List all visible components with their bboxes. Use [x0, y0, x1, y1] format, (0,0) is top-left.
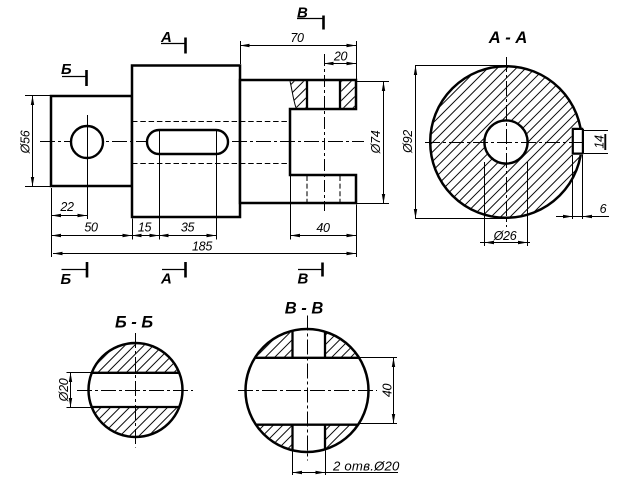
svg-text:Б - Б: Б - Б: [115, 314, 153, 332]
svg-text:А - А: А - А: [488, 29, 528, 47]
middle block outline: [132, 66, 240, 218]
hatched circle bottom segment: [85, 407, 186, 440]
V-V vertical centerline: [307, 316, 309, 461]
leader 2 holes D20: [292, 451, 294, 476]
left block outline: [51, 96, 132, 186]
section mark V bottom: [298, 269, 322, 271]
slot top chord: [92, 372, 180, 374]
broken-out section left hatch patch: [290, 81, 306, 108]
svg-text:Ø92: Ø92: [401, 130, 415, 154]
dimension 70: [240, 41, 242, 64]
hole wall bottom-left: [291, 425, 293, 450]
svg-text:35: 35: [181, 221, 195, 235]
hidden line hole bottom: [132, 163, 289, 165]
circle outline: [89, 343, 183, 437]
svg-text:А: А: [160, 271, 172, 288]
break line (wavy): [290, 81, 296, 108]
dimension 185: [51, 219, 53, 257]
svg-text:6: 6: [600, 202, 607, 216]
hole wall bottom-right: [324, 425, 326, 449]
dimension 15: [159, 131, 161, 240]
circle outline: [246, 329, 369, 452]
keyway outline: [572, 129, 584, 154]
dimension 14: [584, 130, 609, 132]
svg-text:В: В: [298, 271, 309, 288]
A-A horizontal centerline: [425, 142, 586, 144]
B-B vertical centerline: [135, 333, 137, 448]
dimension 22: [51, 188, 53, 219]
section mark V top: [297, 18, 323, 20]
svg-text:14: 14: [593, 135, 607, 149]
A-A vertical centerline: [506, 57, 508, 227]
hidden line hole top: [132, 121, 289, 123]
hatched top-left segment: [242, 326, 293, 358]
vertical centerline of left hole: [87, 115, 89, 219]
svg-text:185: 185: [192, 240, 212, 254]
svg-text:70: 70: [290, 31, 304, 45]
svg-text:22: 22: [59, 200, 74, 214]
hatched circle top segment: [85, 340, 186, 373]
dimension 35: [216, 131, 218, 240]
svg-text:В - В: В - В: [285, 300, 324, 318]
notch top chord: [255, 357, 360, 359]
B-B horizontal centerline: [77, 390, 193, 392]
dimension 50: [132, 219, 134, 240]
dimension D26: [484, 162, 486, 246]
slot (keyway) in middle block: [147, 130, 228, 154]
vertical centerline of fork holes: [324, 54, 326, 211]
hatched top-right segment: [325, 326, 375, 358]
dimension D56: [25, 95, 51, 97]
dimension 40 bottom: [290, 176, 292, 240]
section mark A top: [161, 43, 185, 45]
broken-out section right hatch patch: [341, 81, 355, 108]
hole left wall: [306, 80, 308, 109]
svg-text:20: 20: [333, 50, 348, 64]
right block (fork) outline: [240, 80, 356, 203]
hatched bottom-left segment: [242, 425, 293, 456]
V-V horizontal centerline: [238, 390, 377, 392]
svg-text:40: 40: [381, 384, 395, 398]
svg-text:40: 40: [316, 221, 330, 235]
hatched bottom-right segment: [325, 425, 375, 456]
svg-text:Б: Б: [61, 61, 72, 78]
inner hole circle: [484, 120, 527, 163]
svg-text:Ø74: Ø74: [369, 130, 383, 154]
section mark B bottom: [62, 269, 87, 271]
svg-text:В: В: [297, 4, 308, 21]
svg-text:50: 50: [84, 221, 98, 235]
hidden hole lines in bottom arm: [306, 176, 308, 202]
svg-text:А: А: [160, 29, 172, 46]
section mark B top (left): [62, 76, 86, 78]
hole wall top-right: [324, 332, 326, 358]
notch bottom chord: [256, 424, 359, 426]
svg-text:Ø20: Ø20: [57, 378, 71, 402]
keyway white cutout: [572, 128, 585, 155]
dimension 20: [324, 63, 356, 65]
svg-text:15: 15: [138, 221, 152, 235]
dimension D92: [415, 65, 506, 67]
svg-text:2 отв.Ø20: 2 отв.Ø20: [332, 459, 400, 474]
transverse hole circle in left block: [71, 126, 103, 158]
main axis centerline: [40, 141, 364, 143]
svg-text:Ø56: Ø56: [19, 130, 33, 154]
svg-text:Ø26: Ø26: [493, 229, 517, 243]
dimension D74: [357, 81, 389, 83]
hole right wall: [339, 80, 341, 109]
section mark A bottom: [162, 269, 185, 271]
hole wall top-left: [291, 331, 293, 358]
big circle hatched: [430, 66, 582, 218]
dimension 40: [360, 357, 397, 359]
dimension 6: [572, 155, 574, 219]
slot bottom chord: [92, 406, 180, 408]
dimension D20: [67, 372, 93, 374]
svg-text:Б: Б: [61, 271, 72, 288]
